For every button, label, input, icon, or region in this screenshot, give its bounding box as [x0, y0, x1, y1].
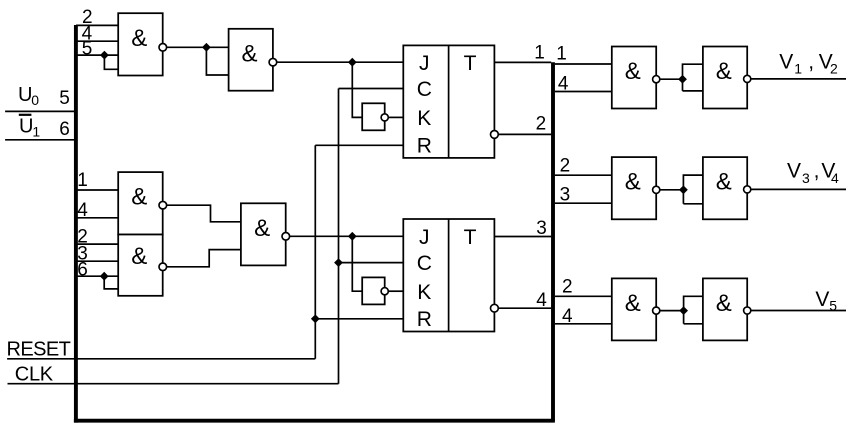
- svg-text:4: 4: [831, 170, 839, 186]
- wire input 3 to gate D4: [76, 260, 118, 262]
- svg-text:2: 2: [536, 114, 547, 135]
- svg-text:CLK: CLK: [15, 364, 54, 386]
- output bubble of D8: [653, 186, 660, 193]
- NAND gate D1: [118, 13, 163, 75]
- svg-text:4: 4: [77, 200, 88, 221]
- T2 output Q wire to bus (pin 3): [494, 236, 551, 238]
- svg-text:1: 1: [534, 42, 545, 63]
- flip-flop T2 body: [403, 219, 494, 332]
- wire D4 output jog to gate D5: [167, 250, 241, 267]
- svg-text:T: T: [464, 226, 477, 249]
- node junction on J2 wire: [348, 232, 357, 241]
- svg-text:1: 1: [77, 170, 88, 191]
- svg-text:,: ,: [808, 50, 814, 73]
- row1 input wire a from bus: [555, 63, 612, 65]
- row2 input wire b from bus: [555, 202, 612, 204]
- svg-text:&: &: [716, 290, 732, 317]
- node junction on D1-D2 wire: [202, 43, 211, 52]
- output wire V3,V4: [751, 188, 846, 190]
- svg-text:C: C: [417, 78, 432, 101]
- svg-text:3: 3: [560, 185, 571, 206]
- big block right edge (thick bus bar): [551, 62, 555, 421]
- wire jog from node into gate D2 lower input: [206, 47, 228, 75]
- tie wires from node to gate D9 inputs: [683, 175, 703, 204]
- svg-text:V: V: [779, 50, 793, 73]
- svg-text:&: &: [625, 290, 641, 317]
- wire input 1 to gate D3: [76, 189, 118, 191]
- NAND gate D10: [612, 278, 656, 340]
- node junction row2: [679, 185, 688, 194]
- node junction row1: [678, 75, 687, 84]
- flip-flop T1 divider: [448, 45, 450, 157]
- NAND gate D9: [703, 157, 747, 219]
- svg-text:2: 2: [830, 61, 838, 77]
- NAND gate D5: [241, 203, 286, 265]
- svg-text:5: 5: [59, 88, 70, 109]
- node junction on input 5: [100, 51, 109, 60]
- output bubble of D9: [744, 186, 751, 193]
- RESET input wire: [7, 358, 315, 360]
- wire jog from J node down to inverter box N1: [352, 62, 362, 117]
- NAND gate D6: [612, 47, 656, 109]
- big block left edge (thick bus bar): [74, 25, 78, 423]
- svg-text:2: 2: [560, 156, 571, 177]
- row1 input wire b from bus: [555, 91, 612, 93]
- svg-text:,: ,: [814, 160, 820, 183]
- inverter box N2: [362, 277, 385, 304]
- svg-text:0: 0: [31, 92, 39, 108]
- wire input 4 to gate D1: [76, 40, 118, 42]
- NAND gate D3: [118, 172, 163, 234]
- svg-text:J: J: [419, 52, 430, 75]
- svg-text:6: 6: [77, 260, 88, 281]
- wire input 2 to gate D4: [76, 243, 118, 245]
- row3 input wire b from bus: [555, 323, 612, 325]
- T2 inverted output bubble (pin 4): [491, 304, 499, 312]
- NAND gate D7: [703, 47, 747, 109]
- output bubble of D4: [159, 263, 167, 271]
- svg-text:V: V: [815, 288, 829, 311]
- svg-text:K: K: [417, 107, 431, 130]
- T1 output Q wire to bus (pin 1): [494, 61, 551, 63]
- wire input 4 to gate D3: [76, 217, 118, 219]
- wire N2 to K input of T2: [388, 290, 403, 292]
- svg-text:&: &: [131, 25, 147, 52]
- output bubble of D5: [282, 233, 290, 241]
- svg-text:J: J: [419, 226, 430, 249]
- svg-text:RESET: RESET: [7, 338, 71, 360]
- tie wires from node to gate D11 inputs: [684, 296, 703, 324]
- CLK input wire: [8, 383, 339, 385]
- T1 inverted output wire to bus: [498, 133, 551, 135]
- wire D2 output to flip-flop T1 J input: [277, 61, 404, 63]
- row3 input wire a from bus: [555, 295, 612, 297]
- output bubble of D2: [269, 58, 277, 66]
- wire jog from node into gate D4 lower input: [104, 276, 118, 289]
- output bubble of N1: [381, 114, 388, 121]
- wire input 5 to gate D1: [76, 54, 118, 56]
- svg-text:5: 5: [829, 298, 837, 314]
- svg-text:2: 2: [562, 276, 573, 297]
- output bubble of D1: [159, 44, 167, 52]
- svg-text:6: 6: [59, 119, 70, 140]
- output bubble of D6: [653, 76, 660, 83]
- tie wires from node to gate D7 inputs: [683, 64, 703, 91]
- wire D3 output jog to gate D5: [167, 205, 241, 222]
- wire R input of T2 from RESET riser: [315, 318, 403, 320]
- node junction RESET to R2: [311, 314, 320, 323]
- svg-text:4: 4: [562, 306, 573, 327]
- svg-text:3: 3: [802, 170, 810, 186]
- NAND gate D4: [118, 235, 163, 296]
- svg-text:V: V: [787, 160, 801, 183]
- node junction on input 6: [100, 272, 109, 281]
- node junction CLK to C2: [334, 258, 343, 267]
- svg-text:4: 4: [558, 74, 569, 95]
- wire jog from J node down to inverter box N2: [352, 236, 362, 291]
- wire D6 to node: [660, 78, 683, 80]
- svg-text:R: R: [417, 308, 432, 331]
- svg-text:1: 1: [794, 61, 802, 77]
- output wire V5: [751, 310, 846, 312]
- wire C input of T2 from CLK riser: [339, 262, 404, 264]
- wire D5 output to flip-flop T2 J input: [290, 235, 404, 237]
- svg-text:R: R: [417, 135, 432, 158]
- svg-text:&: &: [716, 58, 732, 85]
- svg-text:C: C: [417, 252, 432, 275]
- wire N1 to K input of T1: [388, 116, 403, 118]
- svg-text:&: &: [131, 184, 147, 211]
- output wire V1,V2: [751, 78, 846, 80]
- svg-text:1: 1: [32, 123, 40, 139]
- svg-text:1: 1: [556, 43, 567, 64]
- svg-text:&: &: [625, 169, 641, 196]
- NAND gate D8: [612, 157, 656, 219]
- T1 inverted output bubble (pin 2): [491, 131, 499, 139]
- svg-text:4: 4: [536, 290, 547, 311]
- flip-flop T2 divider: [448, 219, 450, 332]
- NAND gate D2: [229, 29, 273, 91]
- inverter box N1: [362, 103, 385, 130]
- svg-text:T: T: [464, 52, 477, 75]
- svg-text:&: &: [131, 243, 147, 270]
- wire R input of T1 from RESET riser: [315, 144, 403, 146]
- node junction row3: [679, 306, 688, 315]
- flip-flop T1 body: [403, 45, 494, 157]
- RESET riser wire: [314, 145, 316, 358]
- T2 inverted output wire to bus: [498, 307, 551, 309]
- NAND gate D11: [703, 278, 747, 340]
- svg-text:&: &: [625, 58, 641, 85]
- wire input 6 to gate D4: [76, 275, 118, 277]
- input U1bar wire: [5, 139, 76, 141]
- svg-text:5: 5: [82, 38, 93, 59]
- svg-text:&: &: [241, 40, 257, 67]
- output bubble of D10: [653, 307, 660, 314]
- node junction on J1 wire: [348, 58, 357, 67]
- svg-text:&: &: [254, 215, 270, 242]
- output bubble of D11: [744, 307, 751, 314]
- svg-text:K: K: [417, 281, 431, 304]
- output bubble of N2: [381, 288, 388, 295]
- wire C input of T1 from CLK riser: [339, 88, 404, 90]
- big block bottom edge (thick): [74, 419, 555, 423]
- svg-text:U: U: [19, 115, 33, 137]
- wire input 2 to gate D1: [76, 24, 118, 26]
- svg-text:&: &: [716, 169, 732, 196]
- output bubble of D3: [159, 201, 167, 209]
- wire jog from node into gate D1 lower input: [104, 55, 118, 69]
- row2 input wire a from bus: [555, 174, 612, 176]
- wire D10 to node: [660, 310, 684, 312]
- CLK riser wire: [338, 89, 340, 384]
- wire D1 output to gate D2: [167, 46, 229, 48]
- output bubble of D7: [744, 75, 751, 82]
- svg-text:3: 3: [536, 218, 547, 239]
- wire D8 to node: [660, 189, 684, 191]
- input U0 wire: [5, 110, 76, 112]
